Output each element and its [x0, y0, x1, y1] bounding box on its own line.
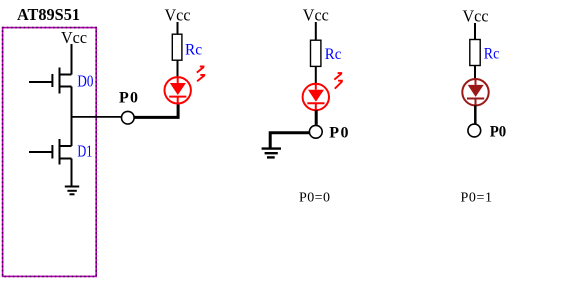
resistor Rc (circuit 2) — [311, 40, 321, 66]
LED3 dark (circuit 3) — [462, 79, 488, 105]
node P0 (circuit 3) — [468, 124, 481, 137]
svg-text:Vcc: Vcc — [463, 7, 489, 26]
wire LED3 to node (circuit 3) — [474, 105, 477, 124]
svg-text:Rc: Rc — [185, 42, 202, 59]
svg-text:P0=0: P0=0 — [299, 191, 330, 206]
resistor Rc (circuit 3) — [470, 40, 480, 66]
svg-text:AT89S51: AT89S51 — [17, 5, 80, 24]
wire Vcc to resistor (circuit 2) — [315, 22, 317, 40]
node P0 (circuit 2) — [309, 125, 322, 138]
resistor Rc (circuit 1) — [172, 34, 182, 60]
svg-text:P0: P0 — [329, 125, 348, 142]
ground (circuit 2) — [262, 149, 281, 158]
flash arrows (circuit 2 LED lit) — [334, 73, 343, 89]
ground (box) — [65, 187, 79, 195]
wire node to LED1 (thick) — [134, 104, 178, 117]
wire Vcc to D0 drain — [71, 44, 73, 75]
svg-text:D1: D1 — [77, 141, 92, 160]
LED2 lit (circuit 2) — [303, 84, 329, 110]
transistor D1 — [29, 139, 72, 165]
node P0 (circuit 1) — [122, 111, 135, 124]
IC box AT89S51 — [3, 28, 97, 277]
svg-text:Vcc: Vcc — [303, 5, 329, 24]
LED1 lit (circuit 1) — [165, 77, 191, 103]
svg-text:Rc: Rc — [325, 46, 342, 63]
wire D0 source to D1 drain — [71, 87, 73, 147]
wire Vcc to resistor (circuit 3) — [474, 23, 476, 40]
flash arrows (circuit 1 LED lit) — [197, 67, 205, 82]
svg-text:P0: P0 — [119, 90, 138, 107]
wire resistor to LED1 — [177, 60, 179, 77]
wire node to ground (circuit 2) — [270, 133, 309, 148]
wire D1 source to ground — [71, 159, 73, 187]
svg-text:P0: P0 — [490, 123, 507, 140]
wire LED2 to node (circuit 2) — [315, 110, 318, 125]
svg-text:Vcc: Vcc — [165, 5, 191, 24]
svg-text:D0: D0 — [77, 72, 93, 91]
wire Vcc to resistor (circuit 1) — [177, 22, 179, 34]
transistor D0 — [29, 68, 72, 94]
svg-text:Rc: Rc — [484, 45, 500, 62]
svg-text:P0=1: P0=1 — [461, 191, 493, 206]
wire resistor to LED2 — [315, 67, 317, 85]
svg-text:Vcc: Vcc — [61, 28, 87, 47]
wire P0 output (junction to node) — [71, 116, 122, 118]
wire resistor to LED3 — [474, 66, 476, 80]
